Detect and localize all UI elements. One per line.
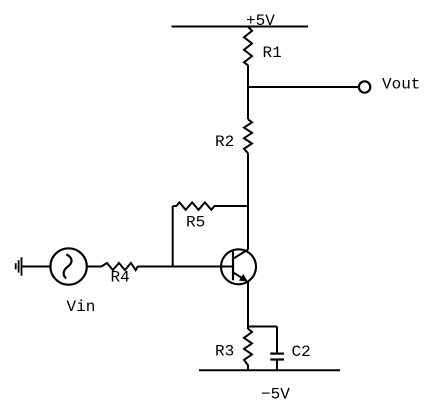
resistor R3 [244, 327, 252, 371]
wire R1 to Vout node [247, 65, 249, 87]
AC source Vin [50, 248, 86, 284]
-5V rail [199, 369, 340, 371]
Vout terminal pin [359, 81, 370, 92]
wire C2 bottom plate to -5V rail [276, 360, 278, 371]
svg-text:R5: R5 [186, 214, 205, 232]
+5V rail [172, 26, 309, 28]
transistor Q1 collector stroke [233, 250, 248, 259]
wire ground to Vin source [22, 266, 51, 268]
wire node to Vout terminal [248, 86, 359, 88]
wire Vout node to R2 [247, 87, 249, 119]
resistor R5 [173, 202, 248, 209]
ground [16, 257, 22, 276]
transistor Q1 emitter arrowhead [239, 274, 248, 282]
resistor R4 [102, 263, 138, 270]
svg-text:R2: R2 [215, 133, 234, 151]
svg-text:+5V: +5V [246, 12, 275, 30]
svg-text:Vout: Vout [382, 76, 420, 94]
sine symbol inside Vin [64, 254, 72, 278]
capacitor C2 top plate [270, 353, 284, 355]
svg-text:Vin: Vin [67, 298, 96, 316]
svg-text:R1: R1 [263, 44, 282, 62]
wire Vin to R4 [87, 266, 102, 268]
node B wire down to collector [247, 206, 249, 250]
transistor Q1 base bar [232, 251, 234, 280]
svg-text:C2: C2 [292, 343, 311, 361]
wire R4 to transistor base [138, 266, 233, 268]
transistor Q1 body [221, 249, 256, 284]
wire R5 left leg down to base net [172, 206, 174, 267]
resistor R1 [244, 27, 252, 66]
svg-text:−5V: −5V [261, 386, 290, 404]
wire C2 branch down to top plate [276, 327, 278, 353]
capacitor C2 bottom plate [270, 358, 284, 360]
wire emitter node to C2 branch [248, 326, 277, 328]
transistor Q1 emitter stroke [233, 272, 246, 280]
svg-text:R3: R3 [215, 343, 234, 361]
resistor R2 [244, 119, 252, 153]
wire R2 to node B [247, 153, 249, 206]
svg-text:R4: R4 [111, 269, 130, 287]
wire emitter down [247, 281, 249, 326]
